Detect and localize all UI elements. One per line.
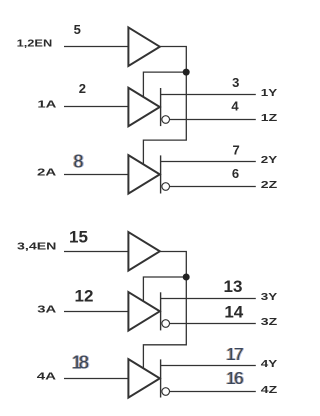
svg-text:2Y: 2Y: [261, 154, 277, 166]
svg-text:1A: 1A: [37, 98, 57, 110]
driver 3: [128, 292, 159, 331]
wire 1,2EN input: [64, 46, 129, 48]
svg-text:1Y: 1Y: [261, 87, 277, 99]
driver 1 output bar: [160, 88, 162, 126]
driver 1: [128, 88, 159, 127]
pin 8: [72, 151, 84, 171]
svg-text:3Y: 3Y: [261, 291, 277, 303]
svg-text:2: 2: [79, 81, 86, 96]
wire 3Y: [161, 298, 256, 300]
svg-text:3Z: 3Z: [261, 316, 278, 328]
wire 3,4EN input: [64, 251, 129, 253]
bubble driver 4 Z: [162, 388, 170, 396]
svg-text:8: 8: [73, 151, 83, 171]
wire 4Z: [170, 391, 256, 393]
wire 2Z: [170, 186, 256, 188]
wire EN2 branch to driver 3 enable: [143, 277, 186, 303]
svg-text:12: 12: [75, 286, 94, 305]
svg-text:3A: 3A: [37, 303, 57, 315]
pin 18: [71, 353, 90, 373]
driver 4: [128, 359, 159, 398]
svg-text:6: 6: [232, 166, 239, 181]
wire EN2 output route to driver 4 enable: [143, 252, 186, 370]
pin 17: [225, 344, 244, 364]
svg-text:3,4EN: 3,4EN: [17, 241, 56, 253]
svg-text:7: 7: [232, 143, 239, 158]
wire 1A input: [64, 106, 129, 108]
svg-text:1,2EN: 1,2EN: [17, 37, 53, 49]
svg-text:2A: 2A: [37, 167, 57, 179]
svg-text:4Z: 4Z: [261, 384, 278, 396]
wire EN1 output route to driver 2 enable: [143, 47, 186, 166]
wire 2Y: [161, 161, 256, 163]
wire 4Y: [161, 365, 256, 367]
svg-text:4Y: 4Y: [261, 358, 277, 370]
buffer U2 (3,4EN enable): [128, 232, 159, 270]
driver 4 output bar: [160, 359, 162, 397]
bubble driver 1 Z: [162, 116, 170, 124]
wire 4A input: [64, 378, 129, 380]
svg-text:5: 5: [74, 22, 81, 37]
pin 16: [225, 368, 244, 388]
svg-text:3: 3: [232, 75, 239, 90]
svg-text:17: 17: [226, 344, 243, 364]
svg-text:4: 4: [231, 99, 239, 114]
driver 2: [128, 155, 159, 194]
wire EN1 branch to driver 1 enable: [143, 72, 186, 98]
svg-text:1Z: 1Z: [261, 112, 278, 124]
wire 1Y: [161, 94, 256, 96]
bubble driver 3 Z: [162, 320, 170, 328]
svg-text:16: 16: [226, 368, 243, 388]
svg-text:2Z: 2Z: [261, 179, 278, 191]
svg-text:4A: 4A: [37, 371, 57, 383]
bubble driver 2 Z: [162, 183, 170, 191]
wire 3A input: [64, 311, 129, 313]
svg-text:14: 14: [224, 302, 243, 321]
wire 2A input: [64, 174, 129, 176]
driver 3 output bar: [160, 292, 162, 330]
wire 3Z: [170, 323, 256, 325]
driver 2 output bar: [160, 155, 162, 193]
junction dot A: [183, 69, 190, 76]
junction dot B: [183, 274, 190, 281]
buffer U1 (1,2EN enable): [128, 27, 159, 65]
wire 1Z: [170, 119, 256, 121]
svg-text:13: 13: [224, 277, 243, 296]
svg-text:15: 15: [69, 228, 88, 247]
